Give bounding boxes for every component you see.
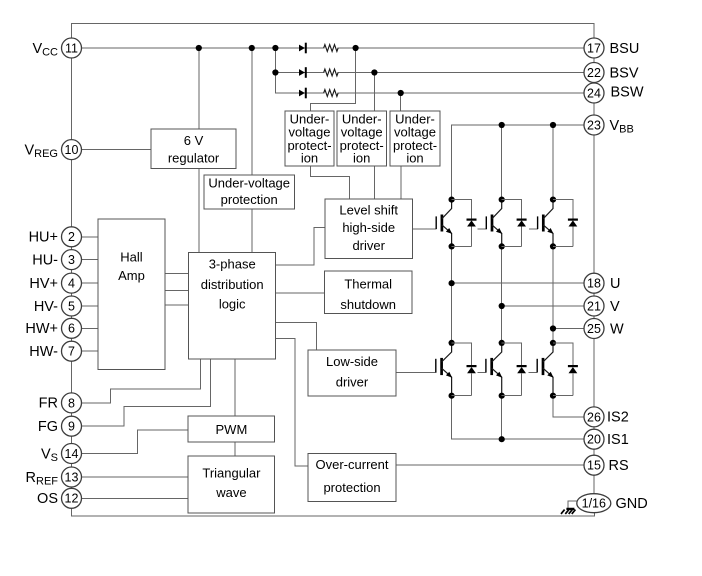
pin 15 RS xyxy=(584,455,604,475)
svg-text:ion: ion xyxy=(406,150,423,165)
svg-text:driver: driver xyxy=(352,238,385,253)
svg-text:V: V xyxy=(610,299,620,315)
svg-text:IS2: IS2 xyxy=(607,410,629,426)
wire: pin stub HW+ to Hall Amp xyxy=(82,327,99,329)
wire: bottom rail to GND xyxy=(72,512,595,515)
junction: BSV row to UV box2 xyxy=(371,69,377,75)
junction: VBB rail leg 2 xyxy=(499,122,505,128)
junction: BSW row to UV box3 xyxy=(398,90,404,96)
wire: VCC to under-voltage protection top xyxy=(251,48,253,175)
wire: 6V regulator bottom to 3-phase logic top xyxy=(198,169,200,253)
wire: 3-phase logic to thermal shutdown xyxy=(276,292,325,294)
wire: pin stub HU+ to Hall Amp xyxy=(82,236,99,238)
junction: node V tap xyxy=(499,303,505,309)
pin 25 W xyxy=(584,319,604,339)
svg-text:25: 25 xyxy=(587,322,601,336)
svg-text:high-side: high-side xyxy=(342,220,395,235)
junction: VBB rail leg 3 xyxy=(550,122,556,128)
junction: BSV row branch xyxy=(272,69,278,75)
pin 3 HU- xyxy=(62,250,82,270)
wire: OS pin to triangular wave xyxy=(82,497,189,499)
wire: pin stub HU- to Hall Amp xyxy=(82,259,99,261)
block: 6 V regulator xyxy=(151,129,236,169)
svg-text:HV+: HV+ xyxy=(29,276,58,292)
wire: low-side gate lead 3 xyxy=(529,371,537,373)
freewheel diode of Q3 high-side xyxy=(553,200,578,247)
wire: right pin column vertical xyxy=(593,38,595,494)
svg-text:driver: driver xyxy=(336,375,369,390)
svg-text:protection: protection xyxy=(221,192,278,207)
wire: pin stub HV- to Hall Amp xyxy=(82,305,99,307)
wire: PWM to triangular wave xyxy=(234,442,236,456)
svg-text:1/16: 1/16 xyxy=(582,497,606,511)
svg-text:Level shift: Level shift xyxy=(339,203,398,218)
svg-text:Hall: Hall xyxy=(120,250,143,265)
svg-text:wave: wave xyxy=(215,485,246,500)
block: PWM xyxy=(188,416,275,442)
block: under-voltage protection (wide) xyxy=(204,175,294,209)
transistor Q1 high-side (IGBT) xyxy=(436,197,455,250)
ground symbol at GND pin xyxy=(561,509,575,514)
junction: node W tap xyxy=(550,325,556,331)
pin 6 HW+ xyxy=(62,318,82,338)
wire: under-voltage protection bottom to 3-phase logic top xyxy=(251,209,253,253)
wire: pin stub HW- to Hall Amp xyxy=(82,350,99,352)
svg-text:Low-side: Low-side xyxy=(326,354,378,369)
wire: high-side gate lead 3 xyxy=(530,228,538,230)
svg-text:22: 22 xyxy=(587,66,601,80)
svg-text:17: 17 xyxy=(587,41,601,55)
svg-text:Triangular: Triangular xyxy=(202,465,261,480)
svg-text:2: 2 xyxy=(68,230,75,244)
svg-text:Under-voltage: Under-voltage xyxy=(208,175,290,190)
svg-text:18: 18 xyxy=(587,277,601,291)
wire: branch vertical VCC to BSV/BSW rows xyxy=(274,48,276,93)
wire: Hall Amp to 3-phase logic line 3 xyxy=(165,304,189,306)
svg-text:8: 8 xyxy=(68,396,75,410)
wire: UV box1 to level shift driver top xyxy=(311,166,350,199)
resistor on BSW row xyxy=(324,90,338,97)
pin 17 BSU xyxy=(584,38,604,58)
pin 11 VCC xyxy=(62,38,82,58)
svg-text:BSV: BSV xyxy=(610,65,639,81)
wire: FG pin to 3-phase logic xyxy=(82,359,211,426)
freewheel diode of Q2 high-side xyxy=(502,200,527,247)
pin 20 IS1 xyxy=(584,429,604,449)
wire: low-side emitter leg3 to IS2 xyxy=(553,396,584,417)
wire: VCC to 6V regulator top xyxy=(198,48,200,129)
pin 24 BSW xyxy=(584,83,604,103)
transistor Q6 low-side (IGBT) xyxy=(537,340,556,399)
wire: BSV row left part xyxy=(275,72,323,74)
wire: over-current protection to RS pin xyxy=(396,464,584,466)
block: over-current protection xyxy=(308,454,396,502)
wire: GND ellipse to ground symbol xyxy=(568,501,577,508)
junction: IS1 line leg 2 xyxy=(499,436,505,442)
wire: low-side gate lead 2 xyxy=(478,371,486,373)
pin 5 HV- xyxy=(62,296,82,316)
block: thermal shutdown xyxy=(325,271,412,313)
pin 26 IS2 xyxy=(584,407,604,427)
wire: BSU row right part after resistor xyxy=(338,47,584,49)
wire: UV box2 to level shift driver top xyxy=(373,166,375,199)
svg-text:BSW: BSW xyxy=(611,85,644,101)
svg-text:protection: protection xyxy=(323,480,380,495)
svg-text:6 V: 6 V xyxy=(184,133,204,148)
wire: top rail from VCC pin column to BSU pin xyxy=(72,24,595,39)
svg-text:U: U xyxy=(610,276,620,292)
diode D1 on BSU row xyxy=(299,43,306,54)
svg-text:Over-current: Over-current xyxy=(316,457,389,472)
diode D2 on BSV row xyxy=(299,67,306,78)
svg-text:13: 13 xyxy=(65,470,79,484)
svg-text:24: 24 xyxy=(587,86,601,100)
svg-text:BSU: BSU xyxy=(610,41,640,57)
wire: Hall Amp to 3-phase logic line 1 xyxy=(165,272,189,274)
svg-text:ion: ion xyxy=(301,150,318,165)
pin 12 OS xyxy=(62,488,82,508)
svg-text:shutdown: shutdown xyxy=(340,297,396,312)
svg-text:distribution: distribution xyxy=(201,277,264,292)
wire: phase leg 2 vertical xyxy=(501,246,503,343)
svg-text:20: 20 xyxy=(587,433,601,447)
block: 3-phase distribution logic xyxy=(189,253,276,360)
block: Hall Amp xyxy=(98,219,165,370)
svg-text:HW-: HW- xyxy=(29,344,58,360)
junction: node U tap xyxy=(449,280,455,286)
junction: VCC rail to under-voltage protection xyxy=(249,45,255,51)
svg-text:21: 21 xyxy=(587,299,601,313)
block: under-voltage protection 2 (small) xyxy=(337,111,386,166)
svg-text:regulator: regulator xyxy=(168,151,220,166)
svg-text:HU-: HU- xyxy=(32,252,58,268)
pin 23 VBB xyxy=(584,115,604,135)
pin 9 FG xyxy=(62,416,82,436)
transistor Q5 low-side (IGBT) xyxy=(486,340,505,399)
svg-text:11: 11 xyxy=(65,41,78,55)
svg-text:15: 15 xyxy=(587,459,601,473)
svg-text:HU+: HU+ xyxy=(29,230,58,246)
svg-text:FR: FR xyxy=(39,396,58,412)
svg-text:5: 5 xyxy=(68,299,75,313)
transistor Q3 high-side (IGBT) xyxy=(538,197,557,250)
wire: BSU row to UV protection box1 top xyxy=(311,48,356,111)
svg-text:6: 6 xyxy=(68,322,75,336)
wire: 3-phase logic to PWM xyxy=(234,359,236,416)
junction: VCC rail to BSV/BSW branch xyxy=(272,45,278,51)
svg-text:OS: OS xyxy=(37,491,58,507)
svg-text:HW+: HW+ xyxy=(25,321,58,337)
pin 22 BSV xyxy=(584,63,604,83)
block: under-voltage protection 3 (small) xyxy=(390,111,440,166)
block: level shift high-side driver xyxy=(325,199,412,259)
pin 14 VS xyxy=(62,444,82,464)
svg-text:4: 4 xyxy=(68,277,75,291)
wire: BSV row right part xyxy=(338,72,584,74)
wire: high-side gate lead 2 xyxy=(478,228,486,230)
pin 2 HU+ xyxy=(62,227,82,247)
svg-text:RS: RS xyxy=(609,458,629,474)
svg-text:PWM: PWM xyxy=(216,422,248,437)
wire: level shift driver to high-side gate 1 xyxy=(412,228,436,230)
resistor on BSV row xyxy=(324,69,338,76)
wire: low-side emitter leg1 to IS1 line xyxy=(451,396,453,440)
pin 18 U xyxy=(584,273,604,293)
transistor Q2 high-side (IGBT) xyxy=(486,197,505,250)
junction: BSU row to UV box1 xyxy=(353,45,359,51)
wire: V phase line to pin 21 xyxy=(502,305,584,307)
freewheel diode of Q4 low-side xyxy=(452,343,477,396)
wire: BSW row right part xyxy=(338,92,584,94)
svg-text:12: 12 xyxy=(65,492,79,506)
wire: Hall Amp to 3-phase logic line 2 xyxy=(165,289,189,291)
wire: BSW row left part xyxy=(275,92,323,94)
wire: low-side emitter leg2 to IS1 line xyxy=(501,396,503,440)
resistor on BSU row xyxy=(324,45,338,52)
wire: VS pin to PWM xyxy=(82,430,189,454)
wire: 3-phase logic to level shift driver xyxy=(276,228,325,265)
block: low-side driver xyxy=(308,350,396,396)
svg-text:IS1: IS1 xyxy=(607,432,629,448)
svg-text:Thermal: Thermal xyxy=(344,276,392,291)
wire: BSV row to UV protection box2 top xyxy=(373,73,375,112)
svg-text:10: 10 xyxy=(65,143,79,157)
svg-text:14: 14 xyxy=(65,447,79,461)
svg-text:FG: FG xyxy=(38,419,58,435)
svg-text:9: 9 xyxy=(68,420,75,434)
pin 7 HW- xyxy=(62,341,82,361)
wire: FR pin to 3-phase logic xyxy=(82,359,201,403)
wire: left pin column vertical xyxy=(71,38,73,516)
wire: VBB rail drop leg3 xyxy=(552,125,554,200)
pin 1/16 GND ellipse xyxy=(577,494,611,513)
freewheel diode of Q6 low-side xyxy=(553,343,578,396)
wire: VREG pin to 6V regulator xyxy=(82,149,152,151)
svg-text:3: 3 xyxy=(68,253,75,267)
svg-text:26: 26 xyxy=(587,410,601,424)
wire: W phase line to pin 25 xyxy=(553,328,584,330)
wire: 3-phase logic to low-side driver xyxy=(276,323,317,350)
block: triangular wave xyxy=(188,456,275,513)
wire: phase leg 3 vertical xyxy=(552,246,554,343)
svg-text:3-phase: 3-phase xyxy=(209,257,256,272)
freewheel diode of Q5 low-side xyxy=(502,343,527,396)
svg-text:ion: ion xyxy=(353,150,370,165)
wire: UV box3 to level shift driver top xyxy=(400,166,402,199)
svg-text:GND: GND xyxy=(616,496,648,512)
svg-text:W: W xyxy=(610,321,624,337)
wire: U phase line to pin 18 xyxy=(452,282,584,284)
block: under-voltage protection 1 (small) xyxy=(285,111,334,166)
pin 13 RREF xyxy=(62,467,82,487)
wire: RREF pin to triangular wave xyxy=(82,476,189,478)
junction: VCC rail to 6V regulator xyxy=(196,45,202,51)
wire: low-side driver to low-side gate 1 xyxy=(396,371,436,373)
svg-text:Amp: Amp xyxy=(118,268,145,283)
pin 21 V xyxy=(584,296,604,316)
diode D3 on BSW row xyxy=(299,88,306,99)
freewheel diode of Q1 high-side xyxy=(452,200,477,247)
wire: pin stub HV+ to Hall Amp xyxy=(82,282,99,284)
svg-text:logic: logic xyxy=(219,297,246,312)
wire: VCC rail row (BSU row) left part xyxy=(82,47,324,49)
pin 10 VREG xyxy=(62,140,82,160)
pin 8 FR xyxy=(62,393,82,413)
svg-text:23: 23 xyxy=(587,118,601,132)
wire: VBB rail drop leg2 xyxy=(501,125,503,200)
wire: phase leg 1 vertical xyxy=(451,246,453,343)
svg-text:7: 7 xyxy=(68,345,75,359)
svg-text:HV-: HV- xyxy=(34,299,58,315)
wire: IS1 line to pin 20 xyxy=(452,438,584,440)
wire: 3-phase logic to over-current protection xyxy=(276,338,308,466)
wire: BSW row to UV protection box3 top xyxy=(400,93,402,111)
pin 4 HV+ xyxy=(62,273,82,293)
transistor Q4 low-side (IGBT) xyxy=(436,340,455,399)
wire: VBB rail xyxy=(452,125,584,200)
